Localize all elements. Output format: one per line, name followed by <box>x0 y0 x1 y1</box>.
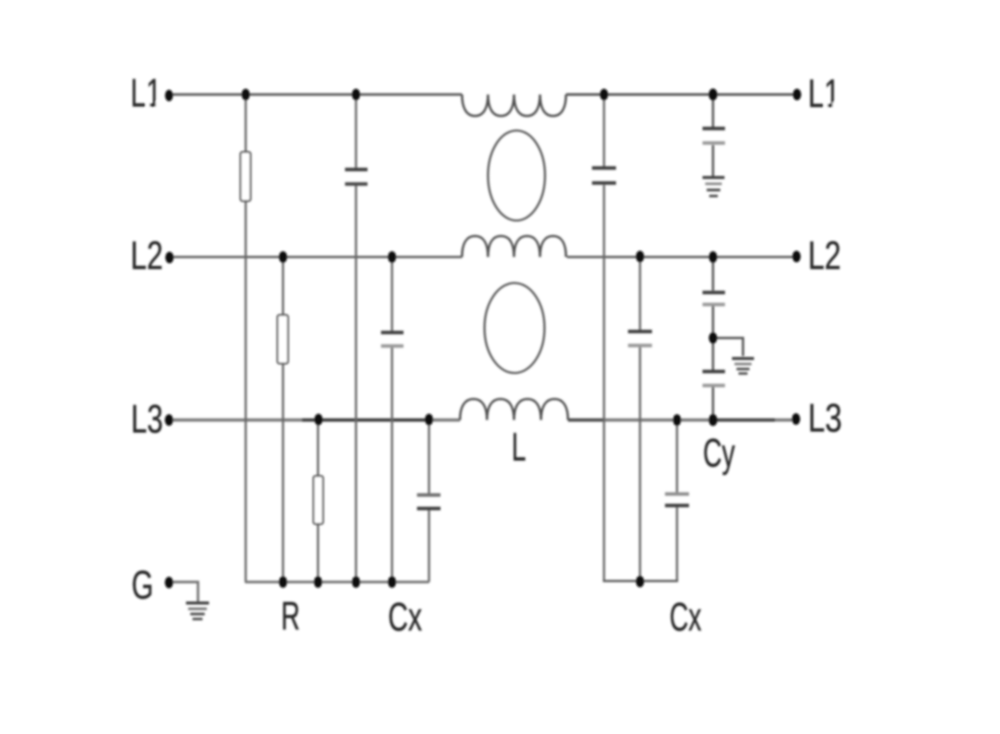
svg-text:Cx: Cx <box>670 596 702 640</box>
svg-text:L: L <box>512 426 527 470</box>
svg-text:L2: L2 <box>131 234 164 278</box>
svg-text:L2: L2 <box>808 234 841 278</box>
svg-text:Cy: Cy <box>703 432 735 476</box>
svg-text:Cx: Cx <box>388 596 422 640</box>
svg-text:G: G <box>132 564 154 608</box>
svg-text:R: R <box>281 595 300 639</box>
svg-text:L3: L3 <box>131 398 163 442</box>
svg-text:L3: L3 <box>808 397 842 441</box>
